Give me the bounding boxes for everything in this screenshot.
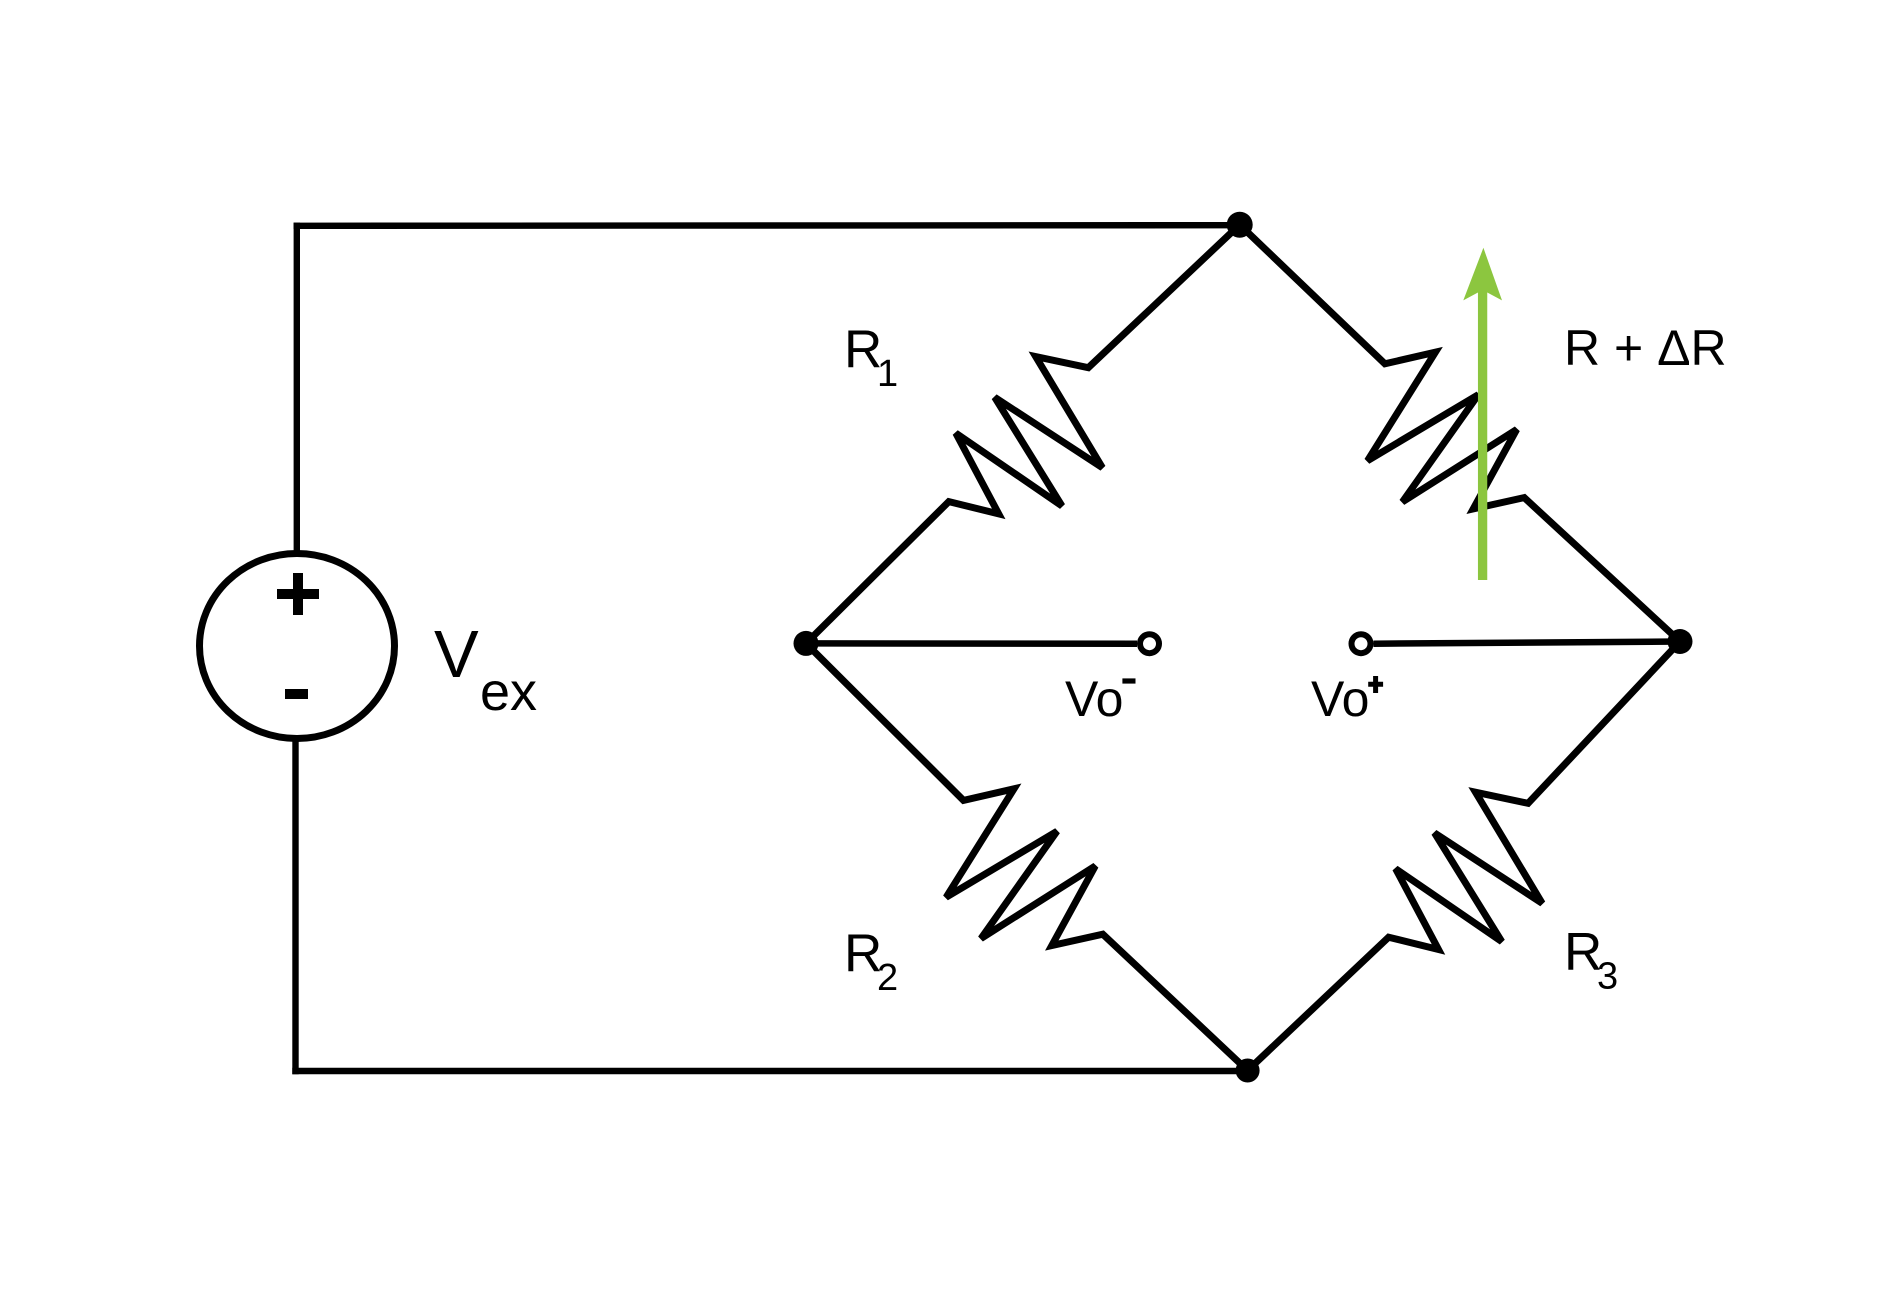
svg-text:1: 1 [877,353,898,395]
node left [794,631,819,656]
voltage source plus sign [277,573,319,615]
resistor R+dR [1240,225,1680,642]
svg-text:2: 2 [877,957,898,999]
resistor R1 [806,225,1240,644]
resistor R2 [806,643,1248,1070]
current arrow shaft [1478,280,1487,580]
node right [1668,629,1693,654]
svg-text:V: V [434,617,479,692]
svg-text:Vo: Vo [1311,671,1369,727]
current arrow head [1463,248,1502,301]
svg-text:Vo: Vo [1065,671,1123,727]
node bottom [1236,1059,1260,1083]
resistor R3 [1248,642,1680,1071]
wire Vo+ output [1374,642,1681,644]
wire top horizontal [294,222,1240,229]
voltage source Vex circle [200,554,395,739]
voltage source minus sign [285,689,308,699]
svg-text:3: 3 [1597,956,1618,998]
wire Vo- output [806,640,1137,647]
svg-text:R + ΔR: R + ΔR [1564,320,1727,376]
terminal Vo- open circle [1140,634,1159,653]
terminal Vo+ open circle [1352,634,1371,653]
svg-text:ex: ex [480,662,537,722]
node top [1227,212,1253,238]
wire bottom horizontal [292,1068,1247,1074]
wire left vertical lower [292,740,298,1074]
wire left vertical upper [294,223,300,552]
